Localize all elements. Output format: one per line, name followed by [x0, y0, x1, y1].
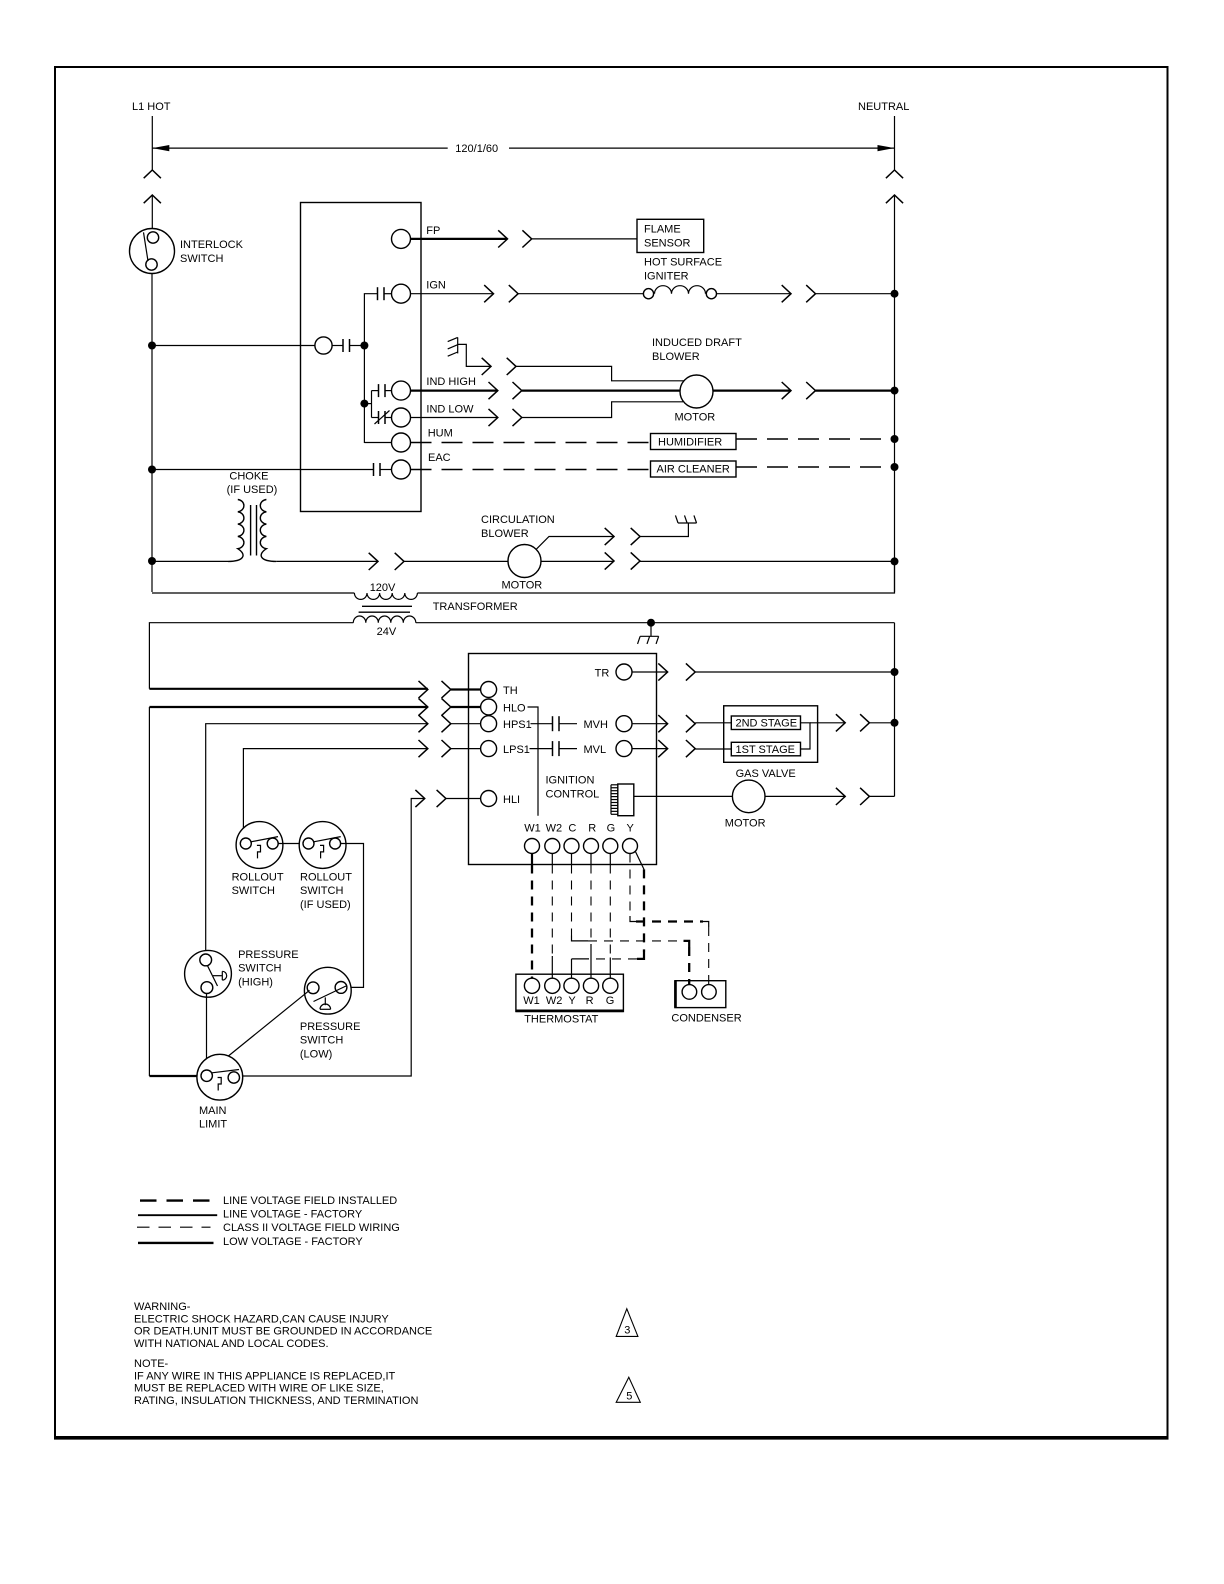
- svg-text:HOT SURFACE: HOT SURFACE: [644, 257, 722, 269]
- wire G inside box: [609, 854, 611, 865]
- furnace control box: [301, 203, 422, 512]
- svg-text:W1: W1: [523, 995, 540, 1007]
- connector chevron pair IGN: [484, 285, 518, 302]
- svg-text:(HIGH): (HIGH): [238, 977, 273, 989]
- wire FP to flame sensor: [532, 238, 637, 240]
- ribbon connector ignition control: [611, 784, 634, 816]
- condenser box: [671, 981, 741, 1025]
- svg-text:MOTOR: MOTOR: [725, 818, 766, 830]
- svg-text:CLASS II VOLTAGE FIELD WIRING: CLASS II VOLTAGE FIELD WIRING: [223, 1222, 400, 1234]
- svg-text:CHOKE: CHOKE: [229, 471, 268, 483]
- relay coil contact: [315, 337, 365, 354]
- wire HPS1 from pressure switch: [206, 724, 428, 954]
- connector chevron pair TH: [419, 681, 451, 698]
- wire EAC dashed: [411, 469, 651, 471]
- gas valve 1ST STAGE: [731, 742, 800, 756]
- wire IND to neutral: [816, 390, 895, 392]
- wire R field dashed: [590, 865, 592, 979]
- connector chevron pair LPS1: [419, 740, 451, 757]
- svg-text:1ST STAGE: 1ST STAGE: [736, 744, 796, 756]
- wire HLO internal drop: [528, 707, 539, 816]
- junction dot TR: [891, 668, 899, 676]
- wire rollout to pressure low: [341, 844, 364, 988]
- rollout switch RS2 (if used): [299, 822, 352, 911]
- terminal FP: [392, 225, 441, 248]
- wire gas motor out: [765, 795, 845, 797]
- svg-text:OR DEATH.UNIT MUST BE GROUNDED: OR DEATH.UNIT MUST BE GROUNDED IN ACCORD…: [134, 1326, 432, 1338]
- svg-text:24V: 24V: [377, 626, 397, 638]
- wire to chassis ground: [640, 523, 688, 537]
- wire TH in: [451, 688, 481, 690]
- connector chevron pair choke: [369, 553, 404, 570]
- wire circ lower: [541, 560, 614, 562]
- wire circ upper: [536, 537, 614, 550]
- wire L1 vertical bus: [151, 274, 153, 593]
- connector chevron pair ground wire: [482, 358, 516, 375]
- svg-text:HPS1: HPS1: [503, 719, 532, 731]
- connector chevron pair gas motor: [836, 788, 870, 805]
- connector chevron pair circ upper: [605, 528, 640, 545]
- connector chevron pair TR: [658, 663, 695, 680]
- junction dot circ-neutral: [891, 557, 899, 565]
- terminal IND LOW: [392, 403, 475, 427]
- svg-text:MVH: MVH: [584, 719, 609, 731]
- wire igniter to neutral: [816, 293, 895, 295]
- node NEUTRAL label: [858, 101, 909, 113]
- wire pressure high to main limit: [206, 994, 208, 1070]
- svg-text:LIMIT: LIMIT: [199, 1119, 227, 1131]
- wire IND LOW cap: [385, 417, 392, 419]
- connector chevron pair HPS1: [419, 715, 451, 732]
- wire C inside box: [571, 854, 573, 865]
- wire IND HIGH to motor: [522, 390, 680, 392]
- thermostat terminals W1 W2 Y R G: [523, 978, 618, 1025]
- svg-text:G: G: [607, 823, 616, 835]
- terminal TR: [595, 664, 632, 680]
- svg-text:SWITCH: SWITCH: [300, 885, 343, 897]
- svg-text:NOTE-: NOTE-: [134, 1358, 169, 1370]
- svg-text:W2: W2: [546, 995, 563, 1007]
- junction dot C: [148, 557, 156, 565]
- wire IGN internal: [364, 294, 377, 346]
- note text: [134, 1358, 418, 1407]
- junction dot 24V ground: [647, 619, 655, 627]
- wire IND LOW out: [411, 417, 498, 419]
- pressure switch high PS1: [185, 949, 299, 997]
- interlock switch SW1: [130, 229, 244, 274]
- connector chevron pair neutral: [886, 170, 903, 203]
- flame sensor FS: [637, 219, 704, 252]
- svg-text:WITH NATIONAL AND LOCAL CODES.: WITH NATIONAL AND LOCAL CODES.: [134, 1338, 329, 1350]
- terminal HLI: [481, 791, 521, 807]
- svg-text:5: 5: [626, 1391, 632, 1403]
- wire W1 field dashed: [531, 865, 533, 979]
- warning text: [134, 1301, 432, 1350]
- wire choke to circ motor: [404, 560, 508, 562]
- capacitor contact EAC: [374, 463, 381, 476]
- svg-text:PRESSURE: PRESSURE: [238, 949, 299, 961]
- node L1 HOT label: [132, 101, 171, 113]
- svg-text:BLOWER: BLOWER: [652, 351, 700, 363]
- transformer T1 primary 120V: [354, 582, 417, 599]
- svg-text:FLAME: FLAME: [644, 224, 681, 236]
- connector chevron pair igniter out: [782, 285, 816, 302]
- svg-text:C: C: [568, 823, 576, 835]
- svg-text:IGN: IGN: [426, 280, 446, 292]
- svg-text:CONDENSER: CONDENSER: [671, 1013, 741, 1025]
- legend class II voltage field wiring: [137, 1222, 400, 1234]
- svg-text:Y: Y: [627, 823, 635, 835]
- svg-text:(LOW): (LOW): [300, 1049, 332, 1061]
- junction dot igniter-neutral: [891, 290, 899, 298]
- svg-text:W2: W2: [546, 823, 563, 835]
- svg-text:R: R: [588, 823, 596, 835]
- chassis ground induced draft: [448, 337, 491, 366]
- wire L1 to primary: [152, 592, 354, 594]
- wire IND HIGH cap: [385, 390, 392, 392]
- wire G field dashed: [609, 865, 611, 979]
- wire MVL to 1st stage: [695, 748, 731, 750]
- svg-text:SWITCH: SWITCH: [232, 885, 275, 897]
- wire condenser left dashed: [684, 941, 690, 985]
- connector chevron pair IND HIGH: [489, 382, 522, 399]
- svg-text:R: R: [586, 995, 594, 1007]
- svg-text:INDUCED DRAFT: INDUCED DRAFT: [652, 337, 742, 349]
- wire IGN out: [411, 293, 494, 295]
- legend low voltage factory: [138, 1236, 363, 1248]
- svg-text:ELECTRIC SHOCK HAZARD,CAN CAUS: ELECTRIC SHOCK HAZARD,CAN CAUSE INJURY: [134, 1313, 389, 1325]
- wire ind branch: [364, 391, 378, 418]
- capacitor contact IND HIGH: [379, 384, 386, 397]
- rollout switch RS1: [232, 822, 284, 898]
- legend line voltage field installed: [140, 1195, 397, 1207]
- wire LPS1 in: [451, 748, 481, 750]
- thermostat box: [516, 974, 624, 1011]
- svg-text:HUMIDIFIER: HUMIDIFIER: [658, 437, 722, 449]
- terminal HPS1: [481, 716, 532, 732]
- svg-text:HUM: HUM: [428, 428, 453, 440]
- junction dot EAC-neutral: [891, 463, 899, 471]
- svg-text:CIRCULATION: CIRCULATION: [481, 514, 555, 526]
- junction dot HUM-neutral: [891, 435, 899, 443]
- svg-text:MVL: MVL: [584, 744, 607, 756]
- svg-text:HLO: HLO: [503, 703, 526, 715]
- svg-text:PRESSURE: PRESSURE: [300, 1021, 361, 1033]
- wire W2 field dashed: [551, 865, 553, 979]
- svg-text:IND HIGH: IND HIGH: [426, 376, 476, 388]
- terminal MVL: [584, 741, 633, 757]
- wire HLI in: [446, 798, 481, 800]
- connector chevron pair gas valve: [836, 714, 870, 731]
- terminal LPS1: [481, 741, 530, 757]
- svg-text:LPS1: LPS1: [503, 744, 530, 756]
- terminal TH: [481, 682, 518, 698]
- circulation blower motor M2: [481, 514, 555, 592]
- gas valve 2ND STAGE: [731, 716, 800, 730]
- wire internal bus down: [363, 346, 365, 444]
- wire to blower relay: [152, 345, 315, 347]
- svg-text:120/1/60: 120/1/60: [455, 143, 498, 155]
- junction dot relay node: [360, 342, 368, 350]
- wire EAC cap to terminal: [380, 469, 392, 471]
- junction dot IND-neutral: [891, 387, 899, 395]
- junction dot ind node: [360, 400, 368, 408]
- wire EAC from L1: [152, 469, 374, 471]
- svg-text:120V: 120V: [370, 582, 396, 594]
- terminal HLO: [481, 699, 526, 715]
- wire IND LOW to motor: [522, 402, 683, 418]
- wire IND HIGH heavy out: [411, 390, 498, 392]
- terminal EAC: [392, 452, 451, 479]
- wire R inside box: [590, 854, 592, 865]
- connector chevron pair IND LOW: [489, 409, 522, 426]
- wire cap to MVH: [559, 723, 577, 725]
- wire air cleaner to neutral dashed: [736, 466, 895, 468]
- svg-text:LOW VOLTAGE - FACTORY: LOW VOLTAGE - FACTORY: [223, 1236, 363, 1248]
- wire to gas valve motor: [634, 795, 733, 797]
- svg-text:Y: Y: [568, 995, 576, 1007]
- wire pressure low to main limit diagonal: [211, 990, 310, 1070]
- svg-text:THERMOSTAT: THERMOSTAT: [524, 1014, 598, 1026]
- label ignition control: [546, 775, 600, 801]
- svg-text:LINE VOLTAGE - FACTORY: LINE VOLTAGE - FACTORY: [223, 1209, 363, 1221]
- humidifier box: [651, 434, 737, 450]
- wire HPS1 to cap: [531, 723, 553, 725]
- svg-text:TRANSFORMER: TRANSFORMER: [433, 601, 518, 613]
- svg-text:L1 HOT: L1 HOT: [132, 101, 171, 113]
- connector chevron pair IND out: [782, 382, 816, 399]
- wire gas valve to 24V bus: [869, 722, 894, 724]
- wire L1 drop: [151, 116, 153, 170]
- junction dot B: [148, 466, 156, 474]
- gas valve assembly box: [724, 706, 818, 780]
- wire cap to MVL: [559, 748, 577, 750]
- wire 24V right: [416, 622, 895, 624]
- ignition control module box: [469, 654, 657, 865]
- wire 2nd stage link: [801, 723, 811, 749]
- connector chevron pair HLI: [415, 790, 446, 807]
- wire Y to condenser dashed: [630, 854, 709, 985]
- connector chevron pair MVH: [658, 715, 695, 732]
- wire W1 inside box: [531, 854, 533, 865]
- condenser terminals: [682, 985, 716, 1000]
- capacitor contact MVL: [553, 741, 560, 756]
- svg-text:ROLLOUT: ROLLOUT: [300, 871, 352, 883]
- connector chevron pair HLO: [419, 698, 451, 715]
- pressure switch low PS2: [300, 967, 361, 1060]
- wire L1 to interlock switch: [151, 195, 153, 229]
- wire MVL out: [632, 748, 668, 750]
- wire FP heavy: [411, 238, 508, 240]
- chassis ground 24V: [638, 623, 659, 644]
- wire HUM stub: [364, 442, 391, 444]
- svg-text:ROLLOUT: ROLLOUT: [232, 871, 284, 883]
- svg-text:MOTOR: MOTOR: [675, 412, 716, 424]
- svg-text:GAS VALVE: GAS VALVE: [736, 768, 796, 780]
- connector chevron pair circ lower: [605, 552, 640, 569]
- svg-text:IF ANY WIRE IN THIS APPLIANCE: IF ANY WIRE IN THIS APPLIANCE IS REPLACE…: [134, 1370, 395, 1382]
- ignition terminals W1 W2 C R G Y: [524, 823, 637, 854]
- svg-text:3: 3: [624, 1325, 630, 1337]
- contact IND LOW with slash: [375, 411, 390, 425]
- wire LPS1 to cap: [530, 748, 553, 750]
- connector chevron pair MVL: [658, 740, 695, 757]
- wire 24V down right side: [894, 623, 896, 797]
- terminal IGN: [392, 280, 446, 304]
- flag triangle 5: [616, 1377, 640, 1402]
- wire HPS1 in: [451, 723, 481, 725]
- gas valve motor M3: [725, 780, 766, 829]
- svg-text:FP: FP: [426, 225, 440, 237]
- induced draft blower motor M1: [652, 337, 742, 424]
- terminal IND HIGH: [392, 376, 476, 400]
- svg-text:SENSOR: SENSOR: [644, 238, 691, 250]
- wire HLO in: [451, 706, 481, 708]
- wire LPS1 from rollout: [243, 749, 427, 838]
- wire humidifier to neutral dashed: [736, 438, 895, 440]
- wire IGN cap to terminal: [384, 293, 392, 295]
- air cleaner box: [651, 461, 737, 477]
- junction dot gas valve: [891, 719, 899, 727]
- transformer core: [359, 601, 518, 613]
- svg-text:SWITCH: SWITCH: [180, 253, 223, 265]
- svg-text:NEUTRAL: NEUTRAL: [858, 101, 909, 113]
- wire gas motor to 24V bus: [869, 795, 894, 797]
- wire HUM dashed: [411, 442, 651, 444]
- svg-text:TH: TH: [503, 685, 518, 697]
- chassis ground circulation: [675, 515, 696, 523]
- legend line voltage factory: [138, 1209, 363, 1221]
- wire choke row left: [152, 560, 228, 562]
- capacitor contact MVH: [553, 716, 560, 731]
- svg-text:IND LOW: IND LOW: [426, 403, 474, 415]
- wire choke row: [276, 560, 378, 562]
- svg-text:MOTOR: MOTOR: [502, 580, 543, 592]
- svg-text:SWITCH: SWITCH: [300, 1035, 343, 1047]
- flag triangle 3: [616, 1309, 638, 1337]
- transformer secondary 24V: [353, 616, 416, 638]
- wire circ lower to neutral: [640, 560, 895, 562]
- svg-text:IGNITION: IGNITION: [546, 775, 595, 787]
- wire HLO from main limit: [149, 707, 427, 1076]
- hot surface igniter HSI: [518, 257, 791, 299]
- wire MVH out: [632, 723, 668, 725]
- svg-text:W1: W1: [524, 823, 541, 835]
- wire neutral drop: [894, 116, 896, 170]
- dimension line 120/1/60: [152, 143, 894, 155]
- main limit switch LS1: [197, 1054, 243, 1130]
- wire TR out: [632, 671, 668, 673]
- svg-text:G: G: [606, 995, 615, 1007]
- svg-text:INTERLOCK: INTERLOCK: [180, 239, 244, 251]
- junction dot A: [148, 342, 156, 350]
- svg-text:IGNITER: IGNITER: [644, 271, 689, 283]
- terminal MVH: [584, 716, 633, 732]
- svg-text:MAIN: MAIN: [199, 1105, 227, 1117]
- wire ground to motor: [516, 366, 684, 380]
- choke (if used): [227, 471, 278, 562]
- connector chevron pair L1: [144, 170, 161, 203]
- svg-text:HLI: HLI: [503, 794, 520, 806]
- svg-text:WARNING-: WARNING-: [134, 1301, 191, 1313]
- connector chevron pair FP: [498, 230, 532, 247]
- wire Y diagonal to thermostat: [572, 851, 645, 978]
- wire gas valve out: [810, 722, 845, 724]
- svg-text:EAC: EAC: [428, 452, 451, 464]
- svg-text:CONTROL: CONTROL: [546, 789, 600, 801]
- svg-text:TR: TR: [595, 668, 610, 680]
- svg-text:AIR CLEANER: AIR CLEANER: [657, 464, 730, 476]
- svg-text:SWITCH: SWITCH: [238, 963, 281, 975]
- wire 24V left feed: [149, 623, 427, 689]
- svg-text:MUST BE REPLACED WITH WIRE OF: MUST BE REPLACED WITH WIRE OF LIKE SIZE,: [134, 1383, 384, 1395]
- wire TR to neutral bus: [695, 671, 894, 673]
- terminal HUM: [392, 428, 453, 452]
- wire HLI from main limit: [240, 799, 425, 1077]
- wire motor to chevrons heavy: [713, 390, 791, 392]
- svg-text:LINE VOLTAGE FIELD INSTALLED: LINE VOLTAGE FIELD INSTALLED: [223, 1195, 397, 1207]
- svg-text:2ND STAGE: 2ND STAGE: [736, 718, 798, 730]
- wire C to condenser dashed: [572, 865, 684, 941]
- svg-text:BLOWER: BLOWER: [481, 528, 529, 540]
- wire rollout link: [278, 843, 303, 845]
- wire MVH to 2nd stage: [695, 722, 731, 724]
- wire neutral bus: [894, 195, 896, 592]
- capacitor contact IGN: [378, 287, 385, 300]
- svg-text:RATING, INSULATION THICKNESS,: RATING, INSULATION THICKNESS, AND TERMIN…: [134, 1395, 418, 1407]
- wire neutral to primary: [417, 561, 894, 593]
- svg-text:(IF USED): (IF USED): [227, 484, 278, 496]
- svg-text:(IF USED): (IF USED): [300, 899, 351, 911]
- wire W2 inside box: [551, 854, 553, 865]
